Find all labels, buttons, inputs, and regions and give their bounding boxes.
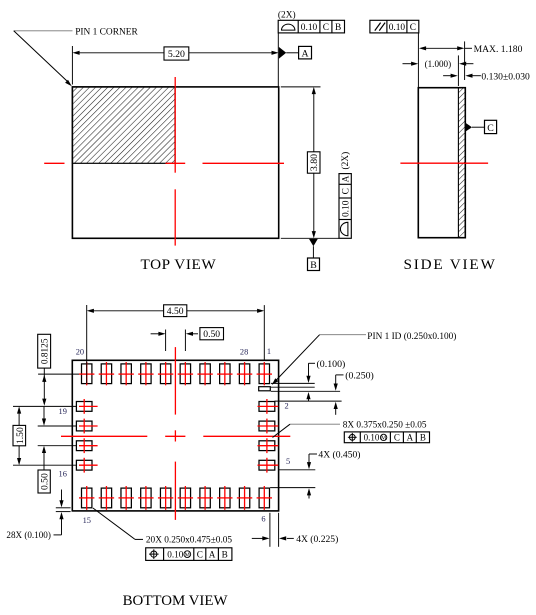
svg-text:(0.100): (0.100)	[317, 359, 346, 370]
svg-text:0.50: 0.50	[203, 329, 220, 340]
pad left 18	[76, 421, 92, 431]
svg-text:1: 1	[267, 347, 271, 356]
svg-text:C: C	[341, 188, 351, 194]
svg-text:0.10: 0.10	[301, 23, 318, 33]
pin 1 ID bar	[259, 387, 271, 391]
svg-text:0.10: 0.10	[341, 200, 351, 217]
top view package body outline	[72, 87, 278, 238]
label PIN 1 ID (0.250x0.100) with leader	[272, 331, 457, 385]
svg-text:8X 0.375x0.250 ±0.05: 8X 0.375x0.250 ±0.05	[343, 421, 427, 431]
top view horizontal centerline	[44, 162, 284, 164]
svg-text:(1.000): (1.000)	[425, 59, 452, 69]
svg-text:28X (0.100): 28X (0.100)	[6, 530, 50, 540]
dimension 0.8125	[38, 334, 51, 406]
left extension line: pad 16 row	[13, 464, 76, 466]
title BOTTOM VIEW	[123, 593, 229, 609]
svg-text:C: C	[197, 550, 203, 560]
datum A symbol	[279, 46, 312, 59]
left extension line: pad 18 row	[38, 425, 77, 427]
svg-text:PIN 1 CORNER: PIN 1 CORNER	[75, 28, 138, 38]
feature control frame: profile 0.10 C B (2X)	[278, 9, 345, 33]
svg-text:5: 5	[286, 457, 290, 466]
svg-text:15: 15	[83, 516, 91, 525]
side view plated layer hatched strip	[458, 88, 465, 238]
label 8X 0.375x0.250 ±0.05 with leader	[273, 421, 427, 438]
dimension MAX. 1.180	[419, 41, 523, 80]
leader: PIN 1 CORNER	[14, 28, 139, 87]
dimension 5.20 with extension lines	[72, 46, 278, 85]
svg-text:4.50: 4.50	[167, 306, 184, 317]
pad right 3	[259, 421, 275, 431]
svg-text:0.130±0.030: 0.130±0.030	[481, 71, 530, 82]
pad bottom 4	[141, 488, 151, 508]
pad right 5	[259, 460, 275, 470]
pin 1 corner hatched quadrant	[72, 87, 175, 163]
pad left 16	[76, 460, 92, 470]
pad top 9	[239, 364, 249, 384]
bottom row pads (pins 15..6) with red centerlines	[79, 486, 272, 510]
svg-text:C: C	[394, 433, 400, 443]
pad top 7	[200, 364, 210, 384]
svg-text:B: B	[335, 23, 341, 33]
dimension 4X (0.450)	[270, 450, 360, 499]
left extension line: pad 19 row	[13, 405, 76, 407]
feature control frame: position 0.10(M) C A B for 20X pads	[146, 548, 232, 561]
side view body outline	[418, 88, 465, 238]
svg-text:SIDE VIEW: SIDE VIEW	[404, 256, 497, 273]
pad top 4	[141, 364, 151, 384]
pad bottom 1	[82, 488, 92, 508]
svg-text:C: C	[323, 23, 329, 33]
svg-text:16: 16	[59, 469, 67, 478]
pad bottom 2	[101, 488, 111, 508]
svg-text:19: 19	[59, 407, 67, 416]
svg-text:B: B	[222, 550, 228, 560]
title TOP VIEW	[141, 256, 217, 273]
svg-text:M: M	[185, 552, 191, 559]
svg-text:28: 28	[240, 347, 248, 356]
datum B symbol	[308, 239, 320, 271]
right column pads (pins 2,3,4,5) with red centerlines	[258, 399, 279, 473]
svg-text:B: B	[420, 433, 426, 443]
extension line from parallelism frame down to side view	[417, 33, 419, 88]
feature control frame: position 0.10(M) C A B for 8X pads	[344, 432, 429, 443]
pad top 3	[121, 364, 131, 384]
dimension 0.50 (left, pad gap)	[38, 407, 51, 493]
svg-text:4X (0.450): 4X (0.450)	[318, 450, 360, 461]
svg-text:1.50: 1.50	[15, 427, 26, 444]
top view vertical centerline	[174, 77, 176, 246]
pad top 1	[82, 364, 92, 384]
svg-text:0.50: 0.50	[40, 473, 51, 490]
pad bottom 3	[121, 488, 131, 508]
left column pads (pins 19,18,17,16) with red centerlines	[76, 399, 97, 473]
dimension 4.50 with extension lines	[87, 305, 265, 384]
svg-text:20X 0.250x0.475±0.05: 20X 0.250x0.475±0.05	[146, 536, 233, 546]
dimension 28X (0.100) with leader	[6, 490, 70, 540]
svg-text:0.10: 0.10	[389, 23, 406, 33]
pad bottom 6	[180, 488, 190, 508]
pad top 10	[259, 364, 269, 384]
pad top 5	[160, 364, 170, 384]
svg-text:(2X): (2X)	[340, 152, 351, 170]
pad bottom 8	[220, 488, 230, 508]
svg-text:BOTTOM VIEW: BOTTOM VIEW	[123, 593, 229, 609]
title SIDE VIEW	[404, 256, 497, 273]
svg-text:PIN 1 ID (0.250x0.100): PIN 1 ID (0.250x0.100)	[367, 331, 456, 342]
pad top 6	[180, 364, 190, 384]
pad top 2	[101, 364, 111, 384]
pad bottom 9	[239, 488, 249, 508]
extension line from pin1 corner up to profile frame	[277, 33, 279, 87]
pad top 8	[220, 364, 230, 384]
top row pads (pins 20,21,...,28,1) with red centerlines	[79, 362, 272, 385]
side view centerline	[400, 162, 488, 164]
svg-text:MAX. 1.180: MAX. 1.180	[474, 44, 523, 55]
dimension 3.80 with extension lines	[281, 87, 339, 238]
pad right 2	[259, 402, 275, 412]
svg-text:A: A	[407, 433, 414, 443]
dimension 4X (0.225)	[252, 513, 339, 547]
svg-text:0.10: 0.10	[167, 550, 183, 560]
dimension 0.130±0.030	[443, 71, 530, 82]
dimension 0.50 (pad pitch)	[151, 328, 224, 351]
dimensions (0.100) and (0.250) at pin 1 ID	[271, 359, 374, 415]
rotated feature control frame: profile 0.10 C A (2X)	[339, 152, 351, 239]
bottom view package body outline	[72, 360, 278, 511]
pad bottom 10	[259, 488, 269, 508]
svg-text:(2X): (2X)	[278, 9, 296, 20]
svg-text:0.8125: 0.8125	[41, 338, 51, 364]
pad left 17	[76, 441, 92, 451]
left extension line: top pad row center	[38, 373, 79, 375]
svg-text:M: M	[381, 436, 387, 442]
svg-text:(0.250): (0.250)	[345, 371, 374, 382]
feature control frame: parallelism 0.10 C	[370, 20, 419, 33]
svg-text:4X (0.225): 4X (0.225)	[296, 534, 338, 545]
left extension line: pad 17 row	[38, 445, 77, 447]
svg-text:2: 2	[285, 401, 289, 410]
svg-text:0.10: 0.10	[364, 433, 380, 443]
bottom view main vertical centerline	[174, 347, 176, 520]
pad left 19	[76, 402, 92, 412]
svg-text:TOP VIEW: TOP VIEW	[141, 256, 217, 273]
svg-text:6: 6	[261, 515, 265, 524]
dimension (1.000)	[403, 55, 474, 86]
dimension 1.50	[13, 406, 26, 465]
svg-text:C: C	[410, 23, 416, 33]
datum C symbol	[466, 120, 497, 134]
pad right 4	[259, 441, 275, 451]
svg-text:3.80: 3.80	[309, 154, 320, 171]
pad bottom 7	[200, 488, 210, 508]
pad bottom 5	[160, 488, 170, 508]
svg-text:A: A	[341, 175, 351, 182]
svg-text:A: A	[209, 550, 216, 560]
svg-text:5.20: 5.20	[168, 49, 185, 60]
svg-text:B: B	[310, 260, 317, 271]
svg-text:20: 20	[76, 348, 84, 357]
svg-text:A: A	[301, 48, 308, 59]
pin number labels	[59, 347, 291, 525]
label 20X 0.250x0.475±0.05 with leader	[93, 508, 233, 546]
bottom view main horizontal centerline	[61, 435, 290, 437]
svg-text:C: C	[487, 123, 494, 134]
